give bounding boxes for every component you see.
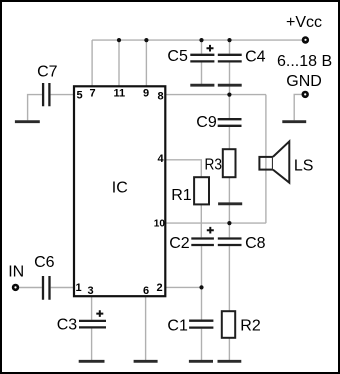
node: junction dot pin11/bus	[117, 38, 121, 42]
wire: IN terminal to C6 to pin 1	[18, 287, 74, 289]
svg-text:6: 6	[143, 285, 149, 297]
wire: pin 2 wire	[166, 286, 202, 288]
svg-text:C9: C9	[196, 114, 217, 131]
svg-text:C2: C2	[169, 235, 190, 252]
node: junction dot C8/pin10 wire	[227, 221, 231, 225]
svg-text:R1: R1	[171, 187, 192, 204]
wire: pin 3 to C3	[91, 296, 93, 320]
wire: right vertical through speaker	[265, 95, 267, 224]
capacitor C7 (plates)	[43, 83, 49, 106]
wire: pin 8 wire across to right column	[166, 94, 267, 96]
ground (pin 6)	[134, 360, 158, 363]
resistor R1	[194, 177, 209, 204]
wire: C1 bottom to ground	[201, 329, 203, 360]
terminal +Vcc	[302, 36, 309, 43]
capacitor C2 (plates)	[191, 239, 214, 246]
svg-text:C3: C3	[57, 317, 78, 334]
wire: C8 lead from pin10 junction	[228, 223, 230, 237]
capacitor C8 (plates)	[218, 239, 242, 246]
wire: C2 bottom to pin2 junction to C1	[201, 246, 203, 320]
svg-text:4: 4	[158, 153, 165, 165]
svg-text:LS: LS	[294, 157, 314, 174]
svg-text:IN: IN	[8, 264, 24, 281]
speaker LS	[259, 157, 273, 170]
svg-text:10: 10	[154, 219, 166, 230]
node: junction dot C2/pin2 wire	[199, 285, 203, 289]
ground (C7)	[15, 120, 40, 123]
ground (C3)	[79, 360, 105, 363]
capacitor C6 (plates)	[43, 276, 50, 300]
wire: R1 bottom through pin10 wire to C2	[200, 204, 202, 237]
svg-text:R3: R3	[205, 157, 223, 174]
wire: C8 bottom to R2 top	[228, 246, 230, 311]
wire: pin 11 riser	[118, 40, 120, 86]
node: junction dot C9/pin8 wire	[227, 93, 231, 97]
svg-text:C4: C4	[245, 49, 266, 66]
wire: R2 bottom to ground	[228, 338, 230, 360]
capacitor C4 (plates)	[218, 55, 242, 62]
svg-text:8: 8	[158, 91, 164, 103]
node: junction dot pin9/bus	[144, 38, 148, 42]
ground (C4)	[218, 84, 242, 87]
wire: C7 to pin 5, and down to ground	[28, 95, 74, 121]
capacitor C9 (plates)	[218, 119, 242, 126]
wire: pin 4 to R1 top	[166, 160, 202, 177]
svg-text:C6: C6	[34, 254, 55, 271]
ground (GND terminal)	[282, 120, 306, 123]
svg-text:6...18 B: 6...18 B	[277, 53, 332, 70]
wire: pin 10 wire across to right column	[166, 222, 266, 224]
wire: C3 bottom to ground	[91, 329, 93, 361]
capacitor C3 (plates)	[79, 321, 106, 328]
terminal IN	[12, 284, 19, 291]
C5 polarity +	[207, 45, 214, 52]
node: junction dot C4/bus	[227, 38, 231, 42]
wire: C9/R3 column from pin8 junction	[228, 95, 230, 150]
wire: +Vcc bus from pin7 riser to +Vcc terminal	[92, 39, 302, 41]
svg-text:1: 1	[76, 282, 82, 294]
IC U1 box	[74, 86, 165, 296]
svg-text:GND: GND	[286, 73, 322, 90]
wire: C5 leads	[201, 40, 203, 84]
svg-text:+Vcc: +Vcc	[286, 14, 322, 31]
svg-text:2: 2	[157, 282, 163, 294]
wire: pin 9 riser	[145, 40, 147, 86]
svg-text:7: 7	[90, 88, 96, 100]
wire: R3 bottom to pin10 wire	[228, 177, 230, 223]
capacitor C5 (plates)	[190, 55, 214, 62]
resistor R3	[223, 149, 236, 177]
svg-text:9: 9	[143, 88, 149, 100]
wire: pin 7 riser	[91, 40, 93, 86]
svg-text:IC: IC	[112, 180, 128, 197]
svg-text:C8: C8	[245, 235, 266, 252]
ground (C1)	[189, 360, 213, 363]
ground (C5)	[190, 84, 214, 87]
ground (R3)	[218, 202, 242, 205]
terminal GND	[302, 91, 309, 98]
ground (R2)	[218, 360, 242, 363]
svg-text:C7: C7	[37, 63, 58, 80]
svg-text:5: 5	[77, 90, 83, 102]
wire: C4 leads down to pin8 wire	[229, 40, 231, 95]
C3 polarity +	[96, 310, 103, 317]
C2 polarity +	[207, 227, 214, 234]
node: junction dot C5/bus	[199, 38, 203, 42]
wire: GND terminal to ground	[294, 94, 302, 120]
resistor R2	[222, 311, 235, 338]
svg-text:C5: C5	[167, 48, 188, 65]
svg-text:C1: C1	[167, 317, 188, 334]
svg-text:3: 3	[88, 285, 94, 297]
svg-text:R2: R2	[240, 317, 261, 334]
capacitor C1 (plates)	[189, 321, 213, 328]
svg-text:11: 11	[114, 88, 126, 100]
wire: pin 6 to ground	[145, 296, 147, 360]
